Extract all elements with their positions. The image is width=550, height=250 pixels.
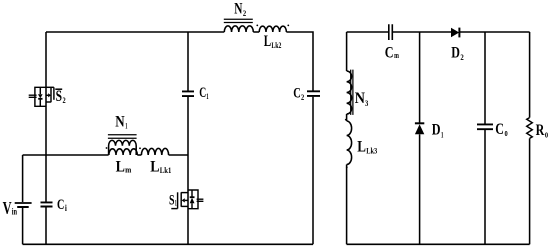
- svg-text:1: 1: [125, 121, 127, 131]
- wire Ci bottom lead: [45, 208, 47, 245]
- wire top bus (C1 rail to N2 winding): [188, 31, 224, 33]
- switch S1 (MOSFET with body diode and capacitor): [171, 190, 203, 209]
- wire top bus right cell (rail to Cm): [347, 31, 389, 33]
- wire right rail lower: [529, 138, 531, 244]
- wire middle bus (Vin corner through node at S2/Ci rail to Lm): [23, 154, 109, 156]
- S1 gate lead: [171, 208, 177, 210]
- wire right cell left rail top: [346, 32, 348, 71]
- wire (N2 to LLk2): [253, 31, 259, 33]
- svg-text:S: S: [169, 192, 175, 208]
- svg-text:R: R: [536, 122, 545, 139]
- svg-text:m: m: [394, 50, 399, 60]
- capacitor C2: [307, 91, 320, 96]
- svg-text:C: C: [385, 45, 394, 62]
- S2 body diode (pointing down): [39, 87, 41, 106]
- wire Vin branch top corner: [22, 155, 24, 202]
- wire top-right corner of left cell into C2 rail: [286, 32, 313, 91]
- label Vin: [3, 198, 17, 218]
- svg-text:Lk2: Lk2: [271, 40, 281, 50]
- wire (Lm to LLk1): [137, 154, 141, 156]
- capacitor Co: [477, 124, 493, 129]
- wire Co branch upper: [484, 32, 486, 124]
- svg-text:o: o: [545, 129, 548, 140]
- label N1: [115, 114, 127, 131]
- label N2: [234, 1, 246, 18]
- S1 drain lead stub: [181, 192, 188, 194]
- inductor LLk2: [259, 25, 289, 33]
- svg-text:N: N: [115, 114, 124, 131]
- wire C1/S1 rail upper: [187, 32, 189, 91]
- S2 parallel branch box: [35, 87, 46, 106]
- svg-text:V: V: [3, 198, 12, 218]
- svg-text:Lk1: Lk1: [160, 165, 172, 175]
- S1 channel bar: [180, 192, 182, 206]
- S1 source lead stub: [181, 205, 188, 207]
- inductor Lm (magnetizing): [109, 149, 137, 155]
- capacitor Cm: [389, 24, 393, 40]
- S1 body lead with arrow: [185, 199, 188, 201]
- transformer winding N2: [224, 19, 258, 32]
- svg-text:i: i: [65, 203, 67, 213]
- svg-text:o: o: [505, 128, 508, 139]
- label Ro: [536, 122, 549, 141]
- svg-text:2: 2: [243, 8, 246, 18]
- label Ci: [57, 197, 67, 213]
- svg-text:L: L: [150, 159, 159, 176]
- S2 channel bar: [50, 87, 52, 102]
- source Vin battery: [15, 203, 32, 207]
- S2 parasitic capacitor: [29, 95, 37, 97]
- wire D1 branch upper: [419, 32, 421, 123]
- S2 source lead stub: [46, 101, 51, 103]
- label LLk1: [150, 159, 171, 176]
- svg-text:2: 2: [301, 92, 304, 102]
- svg-text:1: 1: [175, 198, 177, 207]
- S2 drain/gate top lead: [46, 86, 54, 88]
- label S2bar: [55, 88, 65, 105]
- svg-text:D: D: [432, 121, 441, 138]
- transformer winding N1: [106, 135, 141, 155]
- label Co: [495, 121, 508, 139]
- label S1: [169, 192, 177, 208]
- wire C1/S1 rail lower (through S1 region to bottom bus): [187, 97, 189, 245]
- S1 body diode (pointing up): [191, 190, 193, 209]
- svg-text:N: N: [234, 1, 242, 18]
- label C1: [199, 85, 209, 101]
- label N3: [355, 90, 369, 108]
- capacitor Ci: [41, 202, 53, 206]
- wire left rail bottom to bottom bus: [346, 165, 348, 245]
- svg-text:L: L: [116, 159, 125, 176]
- svg-text:2: 2: [63, 95, 66, 105]
- inductor LLk1: [141, 148, 168, 155]
- S1 parallel branch box: [188, 190, 198, 209]
- inductor LLk3: [346, 121, 352, 168]
- label D2: [451, 45, 464, 63]
- wire (LLk1 to S1 rail node): [169, 154, 188, 156]
- wire (Cm to D2 through D1 branch node): [393, 31, 451, 33]
- label Cm: [385, 45, 399, 62]
- transformer winding N3: [345, 70, 353, 121]
- S1 parasitic capacitor: [197, 199, 204, 201]
- svg-text:3: 3: [365, 98, 368, 108]
- wire D1 branch lower: [419, 134, 421, 244]
- svg-text:D: D: [451, 45, 460, 62]
- svg-text:S: S: [56, 88, 62, 105]
- label LLk3: [357, 138, 377, 155]
- diode D2: [451, 28, 459, 38]
- svg-text:Lk3: Lk3: [366, 146, 377, 156]
- label LLk2: [264, 33, 282, 50]
- wire Co branch lower: [484, 130, 486, 244]
- wire (N3 to LLk3): [346, 114, 348, 121]
- label Lm: [116, 159, 132, 176]
- S2 gate bar: [53, 87, 55, 100]
- wire C2 rail down to bottom bus: [312, 97, 314, 245]
- svg-text:C: C: [293, 86, 301, 102]
- svg-text:C: C: [199, 85, 206, 101]
- wire S2/Ci rail upper (top bus through S2 region to Ci): [45, 32, 47, 202]
- svg-text:C: C: [495, 121, 504, 138]
- svg-text:1: 1: [206, 91, 208, 101]
- wire Vin bottom lead: [22, 207, 24, 244]
- svg-text:C: C: [57, 197, 64, 213]
- S1 gate bar: [177, 192, 179, 208]
- switch S2bar (MOSFET with body diode and capacitor): [29, 87, 54, 106]
- svg-text:1: 1: [441, 129, 443, 139]
- S2 body lead with arrow: [46, 94, 48, 96]
- diode D1 (pointing up): [415, 123, 424, 134]
- wire bottom bus right cell: [347, 243, 530, 245]
- wire right rail upper: [529, 32, 531, 118]
- label C2: [293, 86, 304, 102]
- svg-text:in: in: [12, 207, 17, 217]
- svg-text:L: L: [357, 138, 366, 155]
- resistor Ro: [527, 118, 533, 139]
- wire bottom bus of left cell: [23, 243, 313, 245]
- capacitor C1: [182, 91, 194, 96]
- svg-text:2: 2: [460, 52, 463, 62]
- svg-text:m: m: [125, 164, 131, 174]
- svg-text:L: L: [264, 33, 271, 50]
- wire (D2 to top-right corner): [459, 31, 529, 33]
- label D1: [432, 121, 444, 139]
- wire top bus left segment (S2 rail top to C1 rail top): [46, 31, 188, 33]
- svg-text:N: N: [355, 90, 366, 107]
